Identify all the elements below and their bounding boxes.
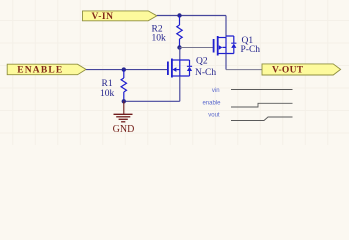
wire Q1 source down to output — [225, 54, 227, 70]
svg-text:P-Ch: P-Ch — [241, 45, 261, 55]
waveform trace vin — [231, 89, 293, 91]
wire top rail corner down to Q1 drain — [225, 16, 227, 38]
junction dot R1 / GND — [122, 99, 126, 103]
transistor Q2 (N-Ch MOSFET) — [168, 59, 192, 78]
svg-text:R1: R1 — [102, 79, 113, 89]
svg-text:Q2: Q2 — [196, 56, 208, 66]
resistor R1 — [121, 70, 126, 102]
wire Q2 source down to ground rail — [179, 76, 181, 101]
svg-text:ENABLE: ENABLE — [17, 66, 63, 76]
port ENABLE — [7, 64, 86, 75]
svg-text:enable: enable — [202, 100, 221, 106]
wire R2 bottom to Q1 gate — [180, 47, 214, 49]
waveform trace vout — [231, 117, 293, 121]
port V-IN — [83, 11, 157, 22]
svg-text:10k: 10k — [152, 34, 167, 44]
svg-text:vin: vin — [212, 88, 220, 94]
junction dot ENABLE / R1 — [122, 67, 126, 71]
wire ground rail R1 to Q2 source — [124, 100, 180, 102]
wire Q1 to V-OUT port — [226, 69, 262, 71]
svg-text:GND: GND — [113, 124, 135, 135]
svg-text:V-IN: V-IN — [92, 12, 114, 22]
transistor Q1 (P-Ch MOSFET) — [214, 36, 237, 56]
svg-text:N-Ch: N-Ch — [195, 68, 216, 78]
svg-text:V-OUT: V-OUT — [272, 66, 304, 76]
junction dot V-IN / R2 — [177, 13, 181, 17]
svg-text:10k: 10k — [100, 89, 115, 99]
ground GND power symbol — [114, 101, 133, 122]
wire ENABLE port to Q2 gate — [86, 69, 168, 71]
wire V-IN port to Q1 drain corner (top rail) — [157, 15, 226, 17]
svg-text:vout: vout — [208, 113, 220, 119]
port V-OUT — [262, 64, 341, 76]
resistor R2 — [177, 16, 182, 48]
waveform trace enable — [231, 103, 293, 107]
junction dot R2 / Q1 gate / Q2 drain — [177, 45, 181, 49]
wire R2 bottom down to Q2 drain — [179, 48, 181, 61]
